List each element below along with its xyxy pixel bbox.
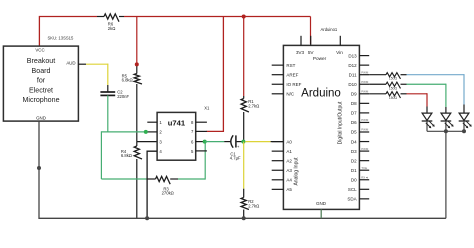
svg-text:5V: 5V [308, 50, 315, 55]
svg-text:VCC: VCC [35, 47, 44, 52]
svg-text:Board: Board [32, 67, 51, 75]
svg-text:PWM: PWM [361, 147, 369, 151]
svg-text:Arduino: Arduino [301, 88, 341, 100]
svg-text:SKU: 13SS15: SKU: 13SS15 [48, 35, 75, 40]
svg-text:SCL: SCL [348, 187, 357, 192]
svg-text:D5: D5 [351, 130, 357, 135]
svg-text:D13: D13 [348, 53, 357, 58]
svg-text:D9: D9 [351, 92, 357, 97]
svg-text:A2: A2 [286, 158, 292, 163]
svg-text:PWM: PWM [361, 70, 369, 74]
svg-text:AREF: AREF [286, 72, 298, 77]
svg-text:270kΩ: 270kΩ [162, 191, 174, 196]
svg-text:Arduino1: Arduino1 [321, 27, 338, 32]
svg-text:Microphone: Microphone [22, 96, 59, 104]
svg-text:A3: A3 [286, 168, 292, 173]
svg-text:A4: A4 [286, 178, 292, 183]
svg-text:RX◄: RX◄ [361, 175, 368, 179]
svg-text:PWM: PWM [361, 90, 369, 94]
svg-text:Analog Input: Analog Input [294, 157, 300, 186]
svg-text:D4: D4 [351, 139, 357, 144]
svg-text:Breakout: Breakout [27, 57, 55, 65]
svg-text:Power: Power [313, 56, 327, 61]
svg-text:2kΩ: 2kΩ [108, 26, 116, 31]
svg-text:X1: X1 [204, 106, 210, 111]
svg-text:2.7kΩ: 2.7kΩ [248, 203, 259, 208]
svg-text:220nF: 220nF [117, 94, 129, 99]
svg-text:A5: A5 [286, 187, 292, 192]
svg-text:TX►: TX► [361, 166, 368, 170]
svg-text:150Ω: 150Ω [389, 96, 398, 100]
svg-text:N/C: N/C [286, 92, 295, 97]
svg-text:u741: u741 [168, 119, 186, 128]
svg-text:D1: D1 [351, 168, 357, 173]
svg-text:Digital Input/Output: Digital Input/Output [338, 101, 344, 144]
svg-text:D6: D6 [351, 120, 357, 125]
svg-text:IO REF: IO REF [286, 82, 301, 87]
svg-text:RST: RST [286, 63, 295, 68]
svg-text:for: for [37, 77, 46, 85]
svg-text:AUD: AUD [66, 61, 75, 66]
svg-text:D2: D2 [351, 158, 357, 163]
svg-text:A0: A0 [286, 139, 292, 144]
svg-text:4.7µF: 4.7µF [230, 156, 241, 161]
svg-text:SDA: SDA [347, 197, 356, 202]
svg-text:PWM: PWM [361, 80, 369, 84]
svg-text:Electret: Electret [29, 86, 53, 94]
svg-text:PWM: PWM [361, 118, 369, 122]
svg-text:D8: D8 [351, 101, 357, 106]
svg-text:6.8kΩ: 6.8kΩ [121, 153, 132, 158]
svg-text:D11: D11 [349, 72, 357, 77]
svg-text:D3: D3 [351, 149, 357, 154]
svg-text:2.7kΩ: 2.7kΩ [248, 103, 259, 108]
svg-text:6.8kΩ: 6.8kΩ [122, 78, 133, 83]
svg-text:D10: D10 [348, 82, 357, 87]
svg-text:PWM: PWM [361, 128, 369, 132]
svg-text:150Ω: 150Ω [389, 77, 398, 81]
svg-text:D12: D12 [348, 63, 357, 68]
svg-text:Vin: Vin [336, 50, 343, 55]
svg-text:A1: A1 [286, 149, 292, 154]
svg-text:GND: GND [36, 116, 46, 121]
svg-text:150Ω: 150Ω [389, 86, 398, 90]
svg-text:3V3: 3V3 [296, 50, 305, 55]
svg-text:D7: D7 [351, 111, 357, 116]
svg-text:GND: GND [316, 201, 327, 206]
svg-text:D0: D0 [351, 177, 357, 182]
